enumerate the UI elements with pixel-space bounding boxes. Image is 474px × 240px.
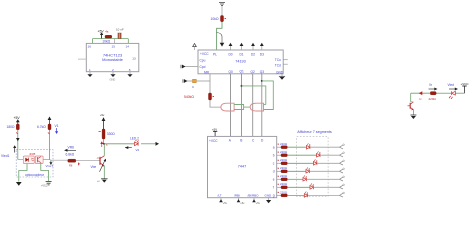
- svg-text:Vled1: Vled1: [1, 154, 10, 158]
- svg-text:GND: GND: [110, 77, 116, 81]
- power +5V (U1 RC network): [98, 29, 109, 38]
- resistor 6.8k horizontal: [51, 159, 80, 167]
- svg-text:/RBI: /RBI: [234, 193, 240, 197]
- resistor Rb 220: [277, 150, 288, 157]
- svg-text:Monostable: Monostable: [102, 57, 123, 62]
- wire MR down: [196, 74, 210, 93]
- wire 180 to opto LED: [16, 130, 20, 160]
- resistor Rd 220: [277, 166, 288, 173]
- label Vled1: [1, 145, 16, 158]
- power +5V input: [14, 116, 21, 124]
- svg-text:74193: 74193: [235, 60, 246, 64]
- node Q1 tap: [241, 85, 243, 87]
- svg-text:220Ω: 220Ω: [280, 158, 288, 162]
- power /BI/RBO: [252, 198, 260, 205]
- power 330 top: [100, 113, 105, 129]
- svg-text:220Ω: 220Ω: [429, 97, 437, 101]
- label Vce2: [46, 161, 54, 168]
- svg-text:4N35: 4N35: [29, 153, 36, 156]
- wire RC top rail: [93, 39, 129, 44]
- svg-text:+5V: +5V: [212, 128, 217, 132]
- net arrow D3: [260, 43, 264, 50]
- svg-text:10 nF: 10 nF: [116, 27, 124, 31]
- svg-text:VCeT: VCeT: [46, 164, 54, 168]
- svg-text:D0: D0: [229, 53, 233, 57]
- net arrow D1: [240, 43, 244, 50]
- wire opto emitter to gnd: [41, 163, 49, 181]
- svg-text:2: 2: [112, 68, 114, 72]
- resistor 180: [7, 124, 20, 134]
- svg-text:Afficheur 7 segments: Afficheur 7 segments: [297, 130, 332, 134]
- resistor Rc 220: [277, 158, 288, 165]
- svg-text:+5V: +5V: [14, 116, 21, 120]
- ground opto left: [16, 182, 22, 186]
- svg-text:8: 8: [129, 68, 131, 72]
- wire down to transistor: [410, 93, 412, 102]
- wire vcc to led: [456, 92, 465, 94]
- svg-text:+VCC: +VCC: [461, 82, 470, 86]
- svg-text:g: g: [273, 194, 275, 198]
- AND gate U3A: [221, 103, 234, 111]
- TCd stub: [283, 63, 288, 65]
- svg-text:V2: V2: [136, 148, 140, 152]
- LED segment d: [287, 168, 344, 174]
- svg-text:10kΩ: 10kΩ: [102, 39, 110, 43]
- capacitor C 10nF: [116, 27, 124, 38]
- LED segment f: [287, 184, 344, 190]
- svg-text:LED 2: LED 2: [130, 136, 139, 140]
- svg-text:Q2: Q2: [251, 70, 255, 74]
- svg-text:GND: GND: [265, 193, 273, 197]
- LED segment e: [287, 176, 344, 182]
- power +VCC 7447: [212, 128, 217, 137]
- svg-text:PL: PL: [213, 53, 217, 57]
- svg-text:Q3: Q3: [260, 70, 264, 74]
- label V2: [125, 146, 140, 152]
- dashed display box: [297, 137, 328, 197]
- LED segment g: [287, 192, 344, 198]
- LED segment b: [287, 151, 344, 157]
- AND gate U3B: [250, 103, 263, 111]
- wire LED2 row: [104, 142, 159, 146]
- U2 74193 box: [198, 50, 284, 75]
- svg-text:220Ω: 220Ω: [280, 166, 288, 170]
- LED Vled: [448, 83, 459, 99]
- wire 6.8k to base: [76, 160, 100, 162]
- wire 330 to collector node: [103, 139, 105, 145]
- net arrow D0: [229, 43, 233, 50]
- svg-text:optocoupleur: optocoupleur: [25, 173, 45, 177]
- svg-text:/LT: /LT: [218, 193, 222, 197]
- wire hook to PL: [217, 22, 225, 50]
- svg-text:Q1: Q1: [240, 70, 244, 74]
- wire opto led cathode to gnd: [19, 164, 27, 182]
- svg-text:180Ω: 180Ω: [7, 125, 16, 129]
- svg-text:10kΩ: 10kΩ: [211, 17, 219, 21]
- svg-text:+VCC: +VCC: [41, 185, 48, 188]
- ground emitter: [97, 179, 108, 183]
- svg-text:+VCC: +VCC: [200, 52, 209, 56]
- wire Q1 down to B: [241, 74, 243, 137]
- optocoupler dashed box: [16, 150, 53, 177]
- svg-text:4a: 4a: [105, 29, 109, 33]
- node Q3 tap: [261, 80, 263, 82]
- svg-text:/BI/RBO: /BI/RBO: [248, 193, 260, 197]
- svg-text:540kΩ: 540kΩ: [184, 95, 194, 99]
- svg-text:TCu: TCu: [275, 58, 281, 62]
- label V1: [55, 124, 59, 134]
- power +VCC for 74193: [193, 44, 197, 51]
- resistor Ra 220: [277, 142, 288, 149]
- svg-text:+5v: +5v: [100, 113, 105, 117]
- resistor 6.7k: [37, 124, 51, 134]
- svg-text:GND: GND: [276, 70, 284, 74]
- svg-text:Vbe: Vbe: [91, 165, 97, 169]
- svg-text:1: 1: [89, 68, 91, 72]
- svg-text:+5V: +5V: [98, 29, 105, 33]
- resistor Rg 220: [277, 190, 288, 197]
- svg-text:6.7kΩ: 6.7kΩ: [37, 125, 46, 129]
- optocoupler U5 body: [23, 153, 43, 164]
- ground opto right: [41, 182, 52, 188]
- svg-text:B: B: [240, 139, 242, 143]
- svg-text:Q0: Q0: [229, 70, 233, 74]
- svg-text:MR: MR: [204, 71, 210, 75]
- wire resistor to transistor: [411, 91, 431, 101]
- ground GND 7447: [266, 198, 271, 204]
- current arrow Ic: [100, 141, 108, 147]
- wire emitter down: [412, 110, 414, 115]
- transistor Q1: [97, 156, 105, 167]
- svg-text:R6: R6: [69, 164, 73, 168]
- label Vbe: [91, 159, 107, 172]
- power arrow 6.7k: [48, 117, 52, 125]
- resistor Re 220: [277, 174, 288, 181]
- resistor 330: [99, 129, 116, 139]
- wire Q2 down to C: [252, 74, 254, 137]
- pin 12 stub left: [78, 58, 86, 60]
- wire emitter to gnd: [103, 166, 105, 179]
- wire Q3 tap to gate2 input: [262, 81, 274, 110]
- transistor Q right: [408, 102, 414, 110]
- wire led to resistor: [436, 92, 452, 94]
- wire Q0 down to A: [230, 74, 232, 137]
- LED segment a: [287, 143, 344, 149]
- svg-text:+VCC: +VCC: [209, 139, 218, 143]
- svg-text:D3: D3: [260, 53, 264, 57]
- LED 2: [130, 136, 139, 145]
- ground pin 1: [87, 72, 92, 77]
- svg-text:Vled: Vled: [448, 83, 455, 87]
- wire opto collector node: [43, 130, 51, 160]
- svg-text:13: 13: [132, 56, 136, 60]
- svg-text:Cpu: Cpu: [200, 59, 206, 63]
- resistor 220 right: [429, 83, 438, 101]
- ground pin 2: [110, 72, 116, 82]
- ground (top of R pulldown): [219, 3, 225, 16]
- svg-text:V1: V1: [55, 124, 59, 128]
- net arrow D2: [251, 43, 255, 50]
- resistor 540k: [184, 93, 214, 100]
- svg-text:330Ω: 330Ω: [107, 132, 116, 136]
- net arrow MR: [183, 79, 193, 83]
- TCu stub: [283, 59, 288, 61]
- resistor 10k (PL pull): [211, 16, 227, 22]
- svg-text:Cpd: Cpd: [200, 65, 206, 69]
- svg-text:220Ω: 220Ω: [280, 174, 288, 178]
- svg-text:a: a: [273, 146, 275, 150]
- power /RBI: [237, 198, 245, 205]
- svg-text:e: e: [273, 178, 275, 182]
- wire collector up: [103, 144, 105, 156]
- svg-text:220Ω: 220Ω: [280, 182, 288, 186]
- ground pin 8: [127, 72, 132, 77]
- net arrow Cpd: [181, 65, 199, 69]
- label 6.8k: [66, 153, 75, 157]
- label VR6: [64, 146, 76, 152]
- wire gate1 inputs loop: [234, 105, 250, 110]
- svg-text:6.8kΩ: 6.8kΩ: [66, 153, 75, 157]
- wire gate2 input top: [264, 104, 266, 106]
- label Afficheur 7 segments: [297, 130, 332, 134]
- svg-text:220Ω: 220Ω: [280, 190, 288, 194]
- ground right: [410, 115, 416, 119]
- svg-text:16: 16: [88, 44, 92, 48]
- svg-text:15: 15: [112, 44, 116, 48]
- power +VCC right: [461, 82, 470, 93]
- svg-text:220Ω: 220Ω: [280, 150, 288, 154]
- op-amp U1 74HCT123 box: [86, 43, 139, 71]
- svg-text:D1: D1: [240, 53, 244, 57]
- svg-text:d: d: [273, 170, 275, 174]
- svg-text:TCd: TCd: [275, 63, 281, 67]
- wire opto led in: [18, 159, 24, 161]
- ground GND 74193: [279, 74, 285, 80]
- wire Q3 down to D: [261, 74, 263, 137]
- U4 7447 box: [208, 136, 277, 197]
- node MR (orange junction): [192, 79, 196, 89]
- svg-text:f: f: [273, 186, 274, 190]
- svg-text:VR6: VR6: [68, 146, 75, 150]
- wire Q1 tap to gate2 input: [242, 86, 266, 105]
- LED segment c: [287, 160, 344, 166]
- svg-text:D2: D2: [251, 53, 255, 57]
- svg-text:14: 14: [126, 44, 130, 48]
- resistor R 10k (horizontal): [102, 35, 112, 43]
- svg-text:7447: 7447: [238, 164, 246, 168]
- svg-text:220Ω: 220Ω: [280, 142, 288, 146]
- resistor Rf 220: [277, 182, 288, 189]
- power /LT: [219, 198, 227, 205]
- svg-text:b: b: [273, 154, 275, 158]
- wire 540k to gate1 out: [210, 100, 221, 107]
